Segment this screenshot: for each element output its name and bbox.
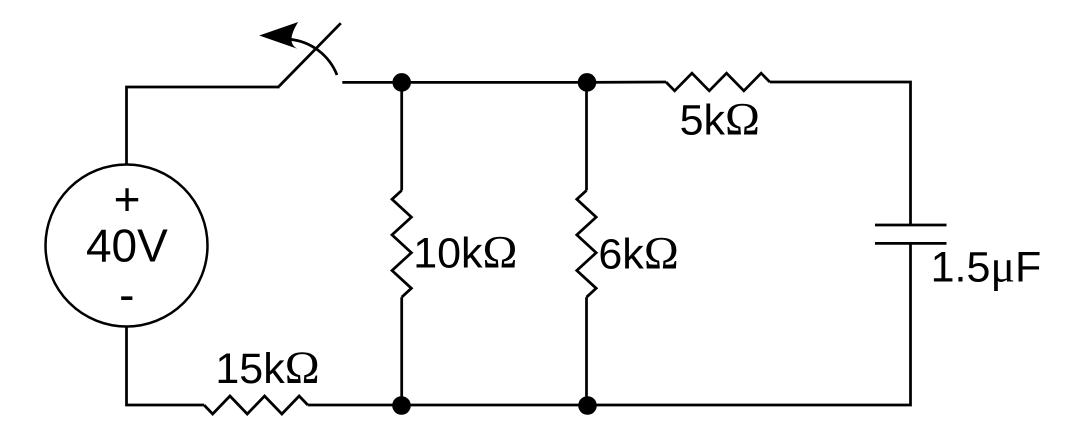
junction node A [392,73,411,92]
svg-text:10kΩ: 10kΩ [413,226,517,278]
wire top-left from source to switch pivot [127,87,280,165]
capacitor C1 top plate [875,224,947,227]
resistor R4 15k zigzag [204,396,308,414]
wire 6k to node D [585,297,588,405]
svg-text:1.5μF: 1.5μF [931,241,1042,292]
svg-text:+: + [114,173,141,225]
voltage source V1 circle [46,165,208,327]
resistor R1 10k zigzag [392,190,411,297]
wire capacitor to bottom-right corner to node D [587,243,911,405]
svg-text:15kΩ: 15kΩ [215,342,319,394]
wire source bottom to bottom-left corner to 15k [127,327,205,406]
switch S1 arrowhead [259,22,298,49]
junction node B [578,73,597,92]
resistor R3 5k zigzag [666,73,770,91]
svg-text:5kΩ: 5kΩ [680,93,760,145]
svg-text:40V: 40V [86,220,168,272]
wire node A down to 10k [400,82,403,190]
wire 10k to node C [400,297,403,405]
svg-text:-: - [119,269,134,321]
wire switch contact to node A [342,81,401,84]
wire 15k to node C [308,404,402,407]
resistor R2 6k zigzag [577,190,596,297]
junction node D [578,396,597,415]
capacitor C1 bottom plate [875,242,947,245]
wire 5k to top-right corner [770,82,911,225]
wire node B to 5k resistor [587,81,666,84]
switch S1 blade (open) [279,23,341,86]
wire node C to node D (bottom) [402,404,588,407]
wire node B down to 6k [585,82,588,190]
junction node C [392,396,411,415]
switch S1 opening arc [289,39,337,75]
svg-text:6kΩ: 6kΩ [598,227,678,279]
wire node A to node B (top) [402,81,587,84]
